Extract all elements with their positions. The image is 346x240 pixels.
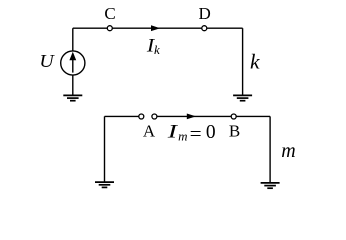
svg-text:k: k	[154, 42, 160, 57]
node A (left terminal)	[139, 114, 144, 119]
wire: bottom rail left segment to node A	[105, 115, 140, 117]
wire: left vertical from source up to top rail	[72, 28, 74, 51]
wire: bottom right vertical down to ground m	[269, 116, 271, 182]
source U (current source circle)	[61, 51, 85, 75]
svg-text:k: k	[250, 50, 260, 74]
wire: top horizontal C-D rail	[73, 27, 243, 29]
node C	[107, 26, 112, 31]
wire: bottom rail right segment from B to corner	[236, 115, 270, 117]
wire: right vertical from top rail down to ground k	[242, 28, 244, 95]
ground (bottom left)	[95, 182, 114, 187]
node A (right terminal)	[152, 114, 157, 119]
wire: bottom left vertical down to ground	[104, 116, 106, 182]
svg-text:U: U	[39, 51, 54, 71]
svg-text:D: D	[199, 4, 211, 23]
ground (net k)	[233, 95, 252, 100]
svg-text:=: =	[190, 124, 202, 146]
source U internal arrow	[72, 59, 74, 73]
ground (under source U)	[63, 95, 82, 100]
arrow I_k on top rail	[151, 25, 160, 31]
svg-text:m: m	[281, 140, 295, 162]
wire: bottom rail middle segment A-B	[157, 115, 232, 117]
svg-text:m: m	[178, 128, 187, 143]
node D	[202, 26, 207, 31]
arrow I_m on bottom rail	[187, 114, 196, 120]
ground (net m)	[261, 183, 280, 188]
svg-text:C: C	[104, 4, 115, 23]
svg-text:B: B	[229, 122, 240, 141]
svg-text:A: A	[143, 122, 156, 141]
svg-text:0: 0	[206, 122, 216, 143]
wire: source bottom to ground	[72, 75, 74, 95]
node B	[231, 114, 236, 119]
svg-text:I: I	[166, 122, 178, 142]
